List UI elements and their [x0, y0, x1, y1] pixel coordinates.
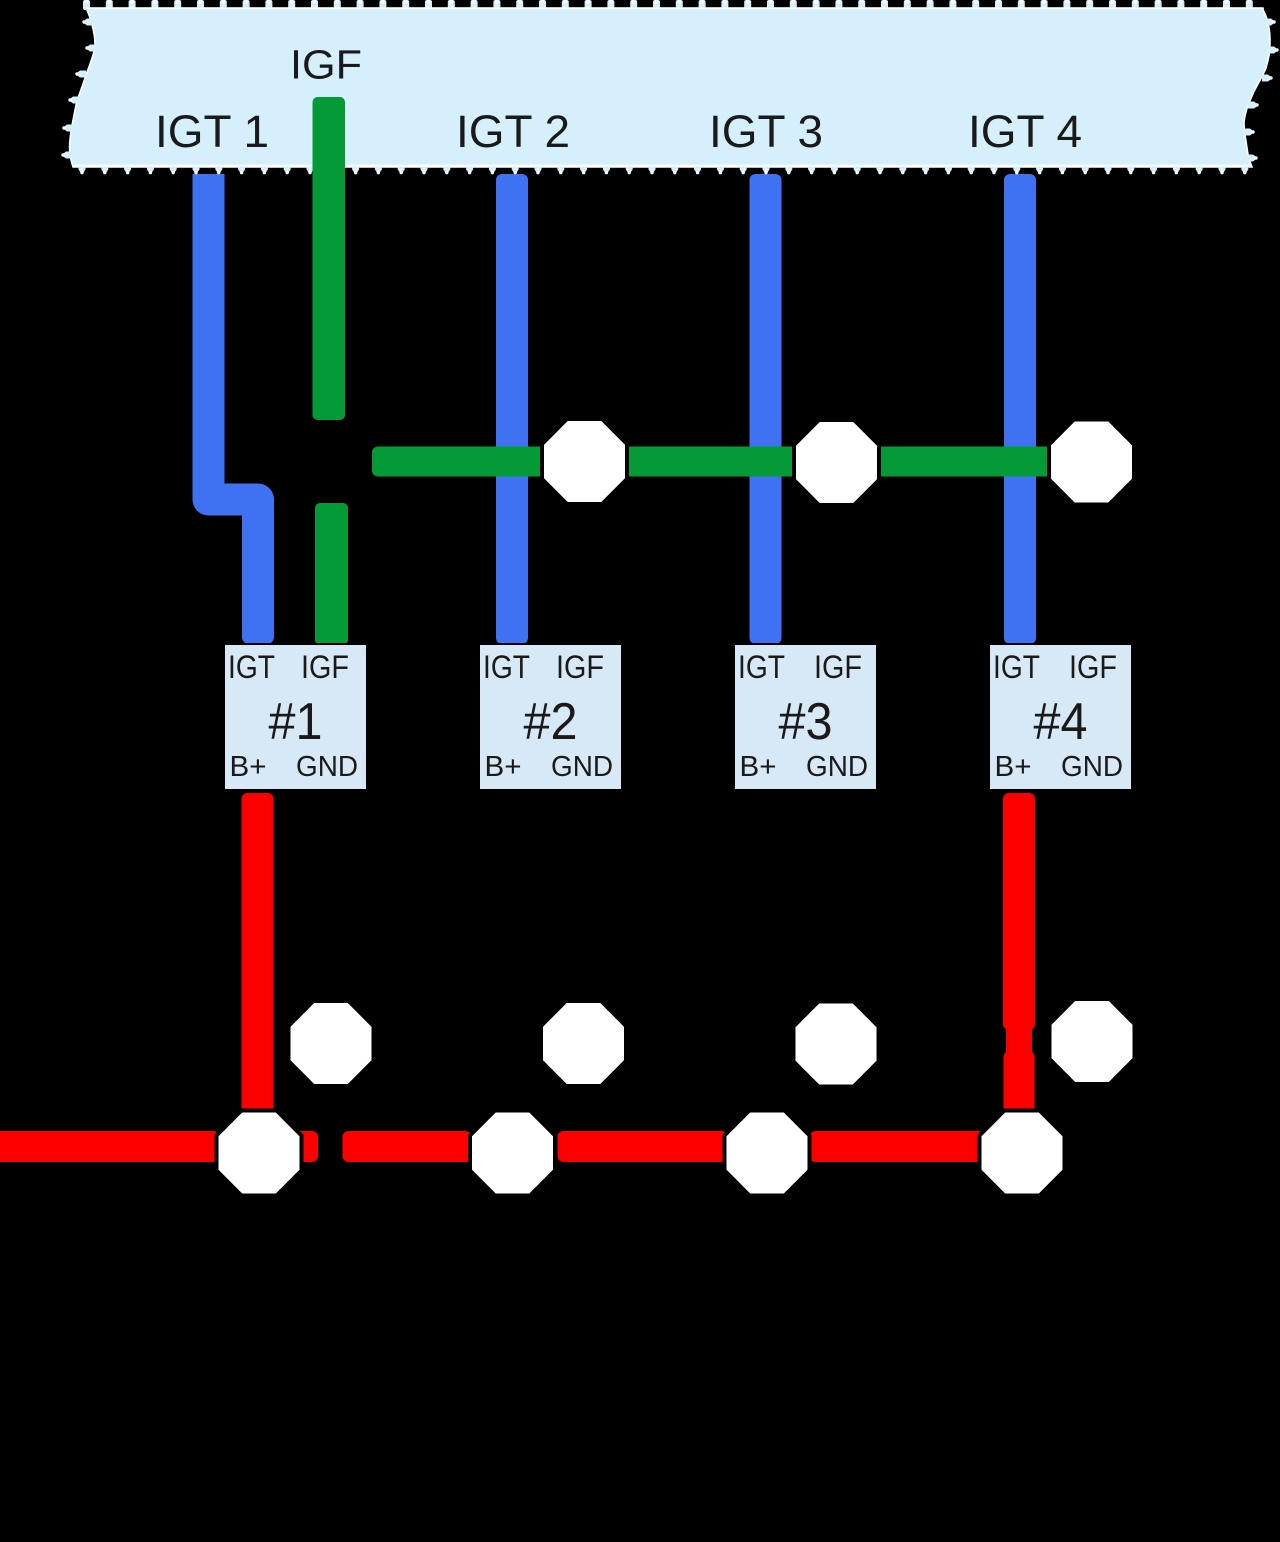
- bus junction connector 4: [980, 1111, 1065, 1196]
- wire IGT1 blue with jog: [209, 174, 259, 632]
- wire red B+ bus segment 4: [810, 1131, 988, 1162]
- floating connector 1: [289, 1001, 374, 1086]
- connector at IGF chain end: [1049, 420, 1134, 505]
- wire IGF green horizontal daisy chain: [372, 447, 1090, 477]
- wire B+ red vertical from coil #4 narrow splice: [1006, 1024, 1032, 1057]
- wire red B+ bus segment left: [0, 1131, 219, 1162]
- banner left perforated edge: [61, 19, 96, 159]
- floating connector 3: [794, 1002, 879, 1087]
- svg-text:B+: B+: [485, 751, 522, 783]
- svg-text:IGT: IGT: [483, 649, 530, 685]
- wire B+ red vertical from coil #1: [242, 793, 274, 1115]
- wire red B+ bus segment 3: [558, 1131, 728, 1162]
- bus junction connector 1: [217, 1111, 302, 1196]
- wire red B+ bus segment 2: [343, 1131, 472, 1162]
- floating connector 2: [541, 1001, 626, 1086]
- svg-text:IGT 3: IGT 3: [709, 106, 823, 157]
- svg-text:#3: #3: [779, 693, 833, 751]
- banner top perforated edge: [83, 0, 1253, 10]
- svg-text:B+: B+: [995, 751, 1032, 783]
- wire B+ red vertical from coil #4 lower: [1004, 1051, 1035, 1115]
- wire IGT2 blue vertical: [496, 174, 528, 644]
- svg-text:IGF: IGF: [556, 649, 604, 685]
- svg-text:IGF: IGF: [290, 42, 362, 88]
- connector on IGF chain after IGT2: [542, 419, 627, 504]
- connector on IGF chain after IGT3: [794, 420, 879, 505]
- wire IGT4 blue vertical: [1004, 174, 1036, 644]
- svg-text:IGT: IGT: [228, 649, 275, 685]
- ignition coil box #3: [734, 644, 877, 790]
- svg-text:#1: #1: [269, 693, 323, 751]
- wire IGF green vertical upper: [313, 97, 346, 420]
- ignition coil box #4: [989, 644, 1132, 790]
- bus junction connector 3: [725, 1111, 810, 1196]
- svg-text:B+: B+: [740, 751, 777, 783]
- ignition coil box #1: [224, 644, 367, 790]
- wire IGT3 blue vertical: [750, 174, 782, 644]
- svg-text:GND: GND: [296, 751, 358, 783]
- svg-text:GND: GND: [806, 751, 868, 783]
- svg-text:IGT 4: IGT 4: [968, 106, 1082, 157]
- floating connector 4: [1050, 999, 1135, 1084]
- ignition coil box #2: [479, 644, 622, 790]
- svg-text:IGF: IGF: [814, 649, 862, 685]
- wire IGF green vertical lower: [315, 503, 348, 645]
- svg-text:IGT 1: IGT 1: [155, 106, 269, 157]
- banner right perforated edge: [1244, 19, 1279, 162]
- svg-text:IGF: IGF: [1069, 649, 1117, 685]
- svg-text:IGF: IGF: [301, 649, 349, 685]
- ECU connector banner: [70, 8, 1270, 167]
- svg-text:GND: GND: [551, 751, 613, 783]
- wire B+ red vertical from coil #4 upper: [1003, 793, 1035, 1030]
- svg-text:IGT 2: IGT 2: [456, 106, 570, 157]
- bus junction connector 2: [470, 1111, 555, 1196]
- svg-text:IGT: IGT: [738, 649, 785, 685]
- wire red B+ bus stub right of junction 1: [270, 1131, 318, 1162]
- svg-text:#4: #4: [1034, 693, 1088, 751]
- svg-text:B+: B+: [230, 751, 267, 783]
- banner bottom perforated edge: [79, 165, 1249, 175]
- svg-text:#2: #2: [524, 693, 578, 751]
- svg-text:IGT: IGT: [993, 649, 1040, 685]
- svg-text:GND: GND: [1061, 751, 1123, 783]
